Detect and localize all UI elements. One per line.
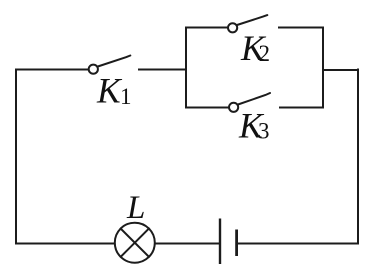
svg-text:L: L (126, 190, 145, 226)
svg-text:1: 1 (120, 84, 132, 109)
svg-text:3: 3 (258, 119, 270, 144)
svg-text:K: K (96, 70, 123, 110)
svg-text:2: 2 (259, 41, 271, 66)
